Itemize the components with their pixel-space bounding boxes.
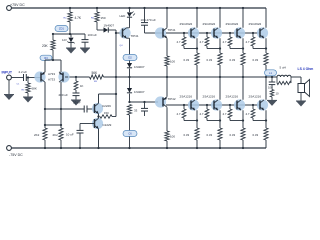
node base R col2: [206, 32, 208, 34]
wire input ground: [8, 80, 10, 94]
svg-text:ZD1: ZD1: [59, 27, 64, 31]
wire 68K top: [27, 78, 29, 84]
node zobel: [271, 76, 273, 78]
wire base resistor top #3: [229, 33, 231, 37]
resistor 0.33 bottom #3: [241, 128, 245, 140]
wire Q2 collector down: [60, 82, 62, 125]
transistor 2SA1216 #3: [234, 99, 245, 110]
node rail 150: [96, 7, 98, 9]
transistor Q6 C2229: [92, 118, 103, 129]
node TIP42 base wire: [128, 101, 130, 103]
ground 100uF: [80, 48, 90, 54]
wire collector col4 top: [265, 8, 267, 28]
resistor 0.33 bottom #4: [264, 128, 268, 140]
wire emitter col3: [242, 38, 244, 53]
svg-text:2SA1216: 2SA1216: [226, 95, 239, 99]
wire base resistor top #4: [252, 33, 254, 37]
label pill C6: [123, 131, 137, 137]
svg-text:INPUT: INPUT: [2, 71, 13, 75]
wire C4 to Q5 base: [87, 108, 95, 110]
svg-text:150: 150: [104, 111, 109, 115]
wire emitter col1: [196, 38, 198, 53]
ground 68K: [23, 97, 33, 103]
wire 100uF to gnd: [84, 42, 86, 47]
transistor 2SC2922 #3: [234, 27, 245, 38]
resistor 4.7 base bottom #3: [228, 109, 232, 118]
capacitor 2.2uF input coupling: [23, 74, 25, 81]
wire zobel: [271, 77, 273, 82]
svg-text:4.7: 4.7: [246, 40, 250, 44]
wire input: [11, 77, 23, 79]
wire bootstrap column: [115, 30, 117, 117]
wire TIP42 base: [130, 101, 159, 103]
transistor Q4 TIP41 predriver: [119, 27, 130, 38]
resistor 0.33 top #4: [264, 53, 268, 65]
svg-text:0.33: 0.33: [207, 58, 213, 62]
diode 1N4007 bias upper: [127, 63, 132, 68]
wire Q5 collector to bootstrap column: [99, 93, 117, 95]
svg-text:LED: LED: [120, 14, 127, 18]
node base R col3 bottom: [229, 104, 231, 106]
wire emitter col2: [219, 38, 221, 53]
svg-text:C2229: C2229: [103, 123, 112, 127]
svg-text:0.33: 0.33: [253, 58, 259, 62]
wire LED to Q4 collector: [129, 18, 131, 28]
wire to Q4 base: [116, 32, 123, 34]
resistor 0.33 bottom #1: [195, 128, 199, 140]
wire base R join #4: [253, 48, 266, 50]
diode 1N4007 predriver: [104, 27, 109, 32]
wire bootstrap to TIP41 base: [144, 25, 146, 33]
svg-text:4.7: 4.7: [200, 112, 204, 116]
transistor 2SA1216 #4: [257, 99, 268, 110]
svg-text:1N4007: 1N4007: [104, 24, 115, 28]
transistor 2SC2922 #1: [188, 27, 199, 38]
wire base R join #3: [230, 48, 243, 50]
resistor 0.33 bottom #2: [218, 128, 222, 140]
label pill ZD1: [55, 26, 68, 32]
wire Q6 emitter to rail: [98, 129, 100, 148]
wire input to Q1 base: [26, 77, 41, 79]
transistor Q1 A733: [34, 71, 45, 82]
node base R col3: [229, 32, 231, 34]
wire TIP41 base: [145, 32, 164, 34]
svg-text:10: 10: [276, 92, 280, 96]
transistor TIP42 driver: [155, 96, 166, 107]
node rail LED: [128, 7, 130, 9]
wire collector col3 top: [242, 8, 244, 28]
svg-text:33: 33: [134, 109, 138, 113]
wire collector col4 bottom: [265, 77, 267, 100]
svg-text:100: 100: [170, 135, 175, 139]
ground zener: [66, 48, 76, 54]
wire diff out to C4: [45, 108, 84, 110]
wire R2 to zener node: [69, 22, 71, 34]
wire base R join #1: [184, 48, 197, 50]
resistor 2K2 left: [43, 128, 47, 140]
node bias mid: [128, 76, 130, 78]
svg-text:4.7: 4.7: [223, 112, 227, 116]
capacitor 10uF lower: [77, 129, 84, 131]
node rail bootstrap: [143, 7, 145, 9]
transistor 2SA1216 #2: [211, 99, 222, 110]
resistor 33: [127, 105, 131, 116]
label pill L1: [265, 70, 277, 76]
svg-text:C6: C6: [128, 132, 132, 136]
svg-text:2SC2922: 2SC2922: [226, 22, 239, 26]
wire TIP42 base cap stub: [144, 102, 146, 108]
wire Q6 base: [80, 123, 95, 125]
ground speaker: [296, 101, 306, 107]
svg-text:1N4007: 1N4007: [134, 90, 145, 94]
speaker: [298, 84, 305, 93]
svg-text:2SA1216: 2SA1216: [203, 95, 216, 99]
wire Q4 emitter to D pill: [129, 38, 131, 55]
wire TIP42 emitter to bus: [166, 77, 168, 97]
wire zener node: [53, 33, 85, 35]
resistor 0.33 top #1: [195, 53, 199, 65]
svg-text:TIP41: TIP41: [131, 34, 139, 38]
svg-text:A733: A733: [48, 72, 55, 76]
svg-text:68K: 68K: [32, 87, 37, 91]
wire rail to LED: [129, 8, 131, 12]
wire TIP41 collector to rail: [166, 8, 168, 28]
svg-text:0.33: 0.33: [253, 133, 259, 137]
wire base resistor top #1: [183, 33, 185, 37]
transistor 2SC2922 #4: [257, 27, 268, 38]
resistor 20K tail: [51, 40, 55, 50]
wire collector col2 bottom: [219, 77, 221, 100]
svg-text:TIP41: TIP41: [168, 28, 176, 32]
terminal +75V: [7, 6, 12, 11]
resistor 100 driver bottom: [165, 131, 169, 141]
transistor Q2 A733: [58, 71, 69, 82]
svg-text:200 uF: 200 uF: [59, 93, 69, 97]
resistor 1K feedback: [74, 81, 78, 90]
svg-text:4.7: 4.7: [223, 40, 227, 44]
wire base R join #2: [207, 48, 220, 50]
node base R col4 bottom: [252, 104, 254, 106]
svg-text:1N4007: 1N4007: [134, 65, 145, 69]
svg-text:-75V DC: -75V DC: [9, 153, 23, 157]
svg-text:4.7: 4.7: [177, 40, 181, 44]
wire inductor damp right: [290, 77, 292, 83]
wire to 10uF bottom: [79, 124, 81, 131]
node base R col2 bottom: [206, 104, 208, 106]
inductor 5uH: [277, 75, 291, 77]
svg-text:2SC2922: 2SC2922: [180, 22, 193, 26]
resistor 2K2 right: [59, 128, 63, 140]
svg-text:C2229: C2229: [102, 104, 111, 108]
wire base resistor top #2: [206, 33, 208, 37]
label pill D2: [123, 55, 137, 61]
svg-text:0.33: 0.33: [207, 133, 213, 137]
ground input: [4, 95, 14, 101]
svg-text:1K: 1K: [80, 84, 84, 88]
svg-text:D2: D2: [128, 56, 132, 60]
resistor inductor damping: [277, 81, 291, 84]
wire diode to base node: [109, 29, 117, 31]
node base R col1 bottom: [183, 104, 185, 106]
wire Q1 emitter up: [44, 60, 46, 72]
wire TIP41 emitter: [166, 38, 168, 56]
wire 20K to diff pair tail: [52, 50, 54, 60]
wire 68K bottom: [27, 93, 29, 97]
svg-text:150: 150: [101, 16, 106, 20]
wire Q2 base stub: [65, 76, 68, 78]
resistor 4.7 base bottom #1: [182, 109, 186, 118]
wire top base bus: [166, 32, 260, 34]
resistor 0.33 top #3: [241, 53, 245, 65]
svg-text:TIP42: TIP42: [168, 97, 176, 101]
svg-text:4.7: 4.7: [246, 112, 250, 116]
node base R col1: [183, 32, 185, 34]
wire emitter col4: [265, 38, 267, 53]
transistor TIP41 driver: [155, 27, 166, 38]
svg-text:2SC2922: 2SC2922: [249, 22, 262, 26]
svg-text:2.2 uF: 2.2 uF: [19, 70, 28, 74]
wire output bus: [104, 76, 278, 78]
wire to 1K: [75, 77, 77, 81]
svg-text:2SA1216: 2SA1216: [180, 95, 193, 99]
node rail R2 junction: [69, 7, 71, 9]
svg-text:R3: R3: [44, 56, 48, 60]
resistor 4.7 base #3: [228, 37, 232, 46]
wire diff tail top: [45, 59, 61, 61]
wire to 100uF: [84, 34, 86, 39]
svg-text:0.33: 0.33: [230, 58, 236, 62]
capacitor TIP42 base: [141, 107, 148, 109]
wire bottom base bus: [166, 104, 260, 106]
LED bias: [127, 12, 132, 17]
svg-text:12V: 12V: [62, 38, 67, 42]
svg-text:5 uH: 5 uH: [280, 66, 286, 70]
ground feedback RC: [71, 100, 81, 106]
wire feedback segment: [68, 76, 90, 78]
wire 150 stub: [112, 116, 116, 118]
wire rail to R2: [69, 8, 71, 12]
resistor 68K input bias: [26, 83, 30, 93]
resistor 150 predriver: [95, 12, 99, 22]
resistor 4.7 base bottom #2: [205, 109, 209, 118]
wire collector col3 bottom: [242, 77, 244, 100]
resistor 0.33 top #2: [218, 53, 222, 65]
wire to 20K: [52, 34, 54, 40]
wire Q5 emitter down: [98, 114, 100, 117]
capacitor 100uF: [82, 39, 89, 41]
svg-text:2SC2922: 2SC2922: [203, 22, 216, 26]
capacitor 200uF feedback: [73, 92, 80, 94]
wire Q4 emitter: [127, 37, 130, 39]
svg-text:0.33: 0.33: [230, 133, 236, 137]
svg-text:2K2: 2K2: [53, 133, 59, 137]
wire speaker ground: [300, 93, 302, 101]
capacitor 100-470uF bootstrap: [141, 22, 148, 24]
transistor 2SC2922 #2: [211, 27, 222, 38]
wire zener to gnd: [70, 43, 72, 48]
wire collector col1 bottom: [196, 77, 198, 100]
resistor 4.7 base #2: [205, 37, 209, 46]
wire bottom rail -75V: [11, 147, 266, 149]
svg-text:10 uF: 10 uF: [73, 101, 81, 105]
resistor 150 VAS: [100, 115, 112, 119]
svg-text:+75V DC: +75V DC: [10, 3, 25, 7]
resistor 56K feedback: [90, 75, 104, 79]
resistor 4.7 base #1: [182, 37, 186, 46]
capacitor 10uF VAS coupling: [83, 106, 85, 113]
svg-text:2SA1216: 2SA1216: [249, 95, 262, 99]
svg-text:4.7: 4.7: [177, 112, 181, 116]
wire collector tie: [45, 124, 61, 126]
wire collector col2 top: [219, 8, 221, 28]
node input junction: [27, 76, 29, 78]
node rail col2: [219, 7, 221, 9]
resistor 4.7K: [68, 12, 72, 22]
svg-text:4.7: 4.7: [200, 40, 204, 44]
wire Q6 collector: [98, 117, 100, 119]
wire to zener: [70, 34, 72, 37]
diode 1N4007 bias lower: [127, 88, 132, 93]
svg-text:0.33: 0.33: [184, 58, 190, 62]
svg-text:10 uF: 10 uF: [66, 133, 74, 137]
svg-text:20K: 20K: [42, 44, 49, 48]
capacitor 104 zobel: [269, 81, 276, 83]
wire top rail +75V: [11, 7, 266, 9]
resistor 100 driver top: [165, 56, 169, 66]
wire 33 down: [129, 115, 131, 131]
resistor 4.7 base bottom #4: [251, 109, 255, 118]
svg-text:2K2: 2K2: [34, 133, 40, 137]
wire Q5 collector up: [98, 94, 100, 103]
wire rail to bootstrap cap: [144, 8, 146, 22]
svg-text:100-470 uF: 100-470 uF: [141, 18, 157, 22]
node rail col1: [196, 7, 198, 9]
wire inductor damp left: [276, 77, 278, 83]
svg-text:0.33: 0.33: [184, 133, 190, 137]
node feedback RC: [75, 76, 77, 78]
zener diode 1N4742: [68, 38, 73, 43]
wire speaker down: [300, 77, 302, 84]
transistor Q5 C2229: [92, 103, 103, 114]
ground zobel: [267, 100, 277, 106]
terminal -75V: [7, 146, 12, 151]
transistor 2SA1216 #1: [188, 99, 199, 110]
node base R col4: [252, 32, 254, 34]
svg-text:LS 4 Ohm: LS 4 Ohm: [298, 67, 314, 71]
svg-text:100 uF: 100 uF: [88, 33, 98, 37]
node rail col3: [242, 7, 244, 9]
wire Q2 emitter up: [60, 60, 62, 72]
terminal input: [7, 75, 12, 80]
resistor 4.7 base #4: [251, 37, 255, 46]
svg-text:A733: A733: [48, 78, 55, 82]
wire TIP42 collector down: [166, 107, 168, 131]
wire to speaker: [291, 76, 301, 78]
wire collector col1 top: [196, 8, 198, 28]
wire Q1 collector down: [44, 82, 46, 125]
wire rail to 150: [96, 8, 98, 12]
svg-text:56K: 56K: [92, 71, 99, 75]
label pill R3: [40, 55, 52, 60]
svg-text:4.7K: 4.7K: [75, 16, 82, 20]
wire 150 to diode: [96, 22, 98, 30]
resistor 10 zobel: [270, 90, 274, 98]
svg-text:100: 100: [170, 60, 175, 64]
